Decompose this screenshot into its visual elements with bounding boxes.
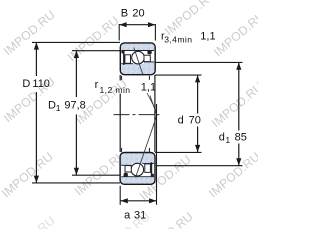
bore face line left upper part [119, 75, 121, 81]
dim d: bottom extension line [155, 151, 202, 153]
svg-text:1,2 min: 1,2 min [100, 85, 131, 95]
chamfer leader stub right upper [148, 76, 150, 80]
dim a: dimension line [120, 200, 156, 202]
left race line [123, 53, 125, 65]
left cage pocket [125, 55, 131, 64]
dim d: top arrow [195, 75, 200, 82]
bearing cross-section lower half [120, 153, 155, 185]
dim d1: bottom extension line [157, 165, 243, 167]
dim a: right extension line [156, 104, 158, 205]
contact angle line lower [136, 114, 158, 177]
svg-text:B: B [121, 7, 128, 19]
svg-text:3,4min: 3,4min [164, 35, 192, 45]
dim a: left extension line [119, 186, 121, 205]
dim B: dimension line [119, 24, 155, 26]
bore face line left lower part [119, 94, 121, 153]
svg-text:D: D [22, 78, 30, 90]
right seal [147, 50, 151, 54]
dim d1: top arrow [236, 63, 241, 70]
dim d: vertical line upper part [197, 75, 199, 114]
dim D1: top arrow [74, 51, 79, 58]
dim d: top extension line [155, 74, 202, 76]
svg-text:20: 20 [132, 7, 144, 19]
svg-text:97,8: 97,8 [64, 100, 85, 112]
dim D: vertical line upper part [35, 42, 37, 76]
dim d: bottom arrow [195, 145, 200, 152]
svg-text:70: 70 [189, 115, 201, 127]
dim a: right arrow [149, 198, 156, 203]
svg-text:1,1: 1,1 [141, 82, 156, 94]
bearing cross-section upper half [120, 43, 155, 75]
dim B: right extension line [154, 24, 156, 41]
svg-text:d: d [219, 132, 225, 144]
raceway channel bottom edge right [144, 61, 154, 63]
svg-text:85: 85 [235, 132, 247, 144]
bore face line right [154, 75, 156, 152]
dim a: left arrow [121, 198, 128, 203]
dim D: vertical line lower part [35, 92, 37, 183]
dim d1: vertical line upper part [238, 62, 240, 130]
right cage pocket [144, 55, 150, 61]
svg-text:1: 1 [225, 135, 230, 145]
dim d1: bottom arrow [236, 158, 241, 165]
dim B: left extension line [118, 24, 120, 41]
svg-text:31: 31 [134, 209, 146, 221]
svg-text:1: 1 [56, 103, 61, 113]
outer ring block [120, 43, 155, 75]
dim D: bottom arrow [34, 176, 39, 183]
svg-text:110: 110 [32, 78, 50, 90]
dim D1: vertical line upper part [75, 51, 77, 97]
chamfer leader stub left upper [121, 76, 123, 80]
dim d: vertical line lower part [197, 127, 199, 153]
dim D: bottom extension line [32, 182, 120, 184]
dim B: right arrow [148, 22, 155, 27]
dim d1: top extension line [155, 61, 243, 63]
dim D1: top extension line [72, 50, 120, 52]
leader line for 1,1 chamfer [147, 93, 156, 111]
dim D1: bottom extension line [72, 174, 120, 176]
ball [132, 51, 145, 64]
dim D: top arrow [34, 42, 39, 49]
dim D1: bottom arrow [74, 168, 79, 175]
left seal [121, 50, 124, 53]
svg-text:r: r [95, 79, 99, 91]
svg-text:D: D [48, 100, 56, 112]
dim D: top extension line [32, 41, 120, 43]
centerline axis [114, 114, 160, 116]
raceway channel bottom edge left [121, 63, 133, 65]
dim d1: vertical line lower part [238, 144, 240, 166]
svg-text:1,1: 1,1 [200, 31, 215, 43]
raceway channel white [121, 50, 154, 63]
chamfer leader stub right lower [148, 148, 150, 152]
dim D1: vertical line lower part [75, 115, 77, 176]
svg-text:d: d [178, 115, 184, 127]
raceway channel top edge [121, 50, 154, 52]
chamfer leader stub left lower [121, 148, 123, 152]
svg-text:a: a [124, 209, 131, 221]
contact angle line upper (below-section segment) [150, 96, 157, 115]
contact angle line upper (in-section segment) [134, 48, 143, 75]
dim B: left arrow [119, 22, 126, 27]
